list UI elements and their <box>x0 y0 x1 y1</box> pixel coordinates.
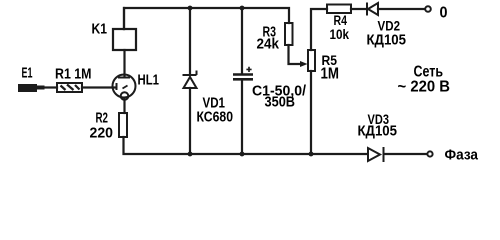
wire C1 top lead <box>241 8 243 73</box>
resistor R2 <box>119 113 127 137</box>
svg-text:E1: E1 <box>22 66 33 82</box>
svg-text:Фаза: Фаза <box>445 148 479 164</box>
variable resistor R5 <box>308 50 315 71</box>
wire top rail net A <box>124 8 289 29</box>
wire K1 top lead <box>123 8 125 29</box>
svg-text:VD2: VD2 <box>378 18 401 34</box>
wire HL1 cathode to R2 <box>123 100 125 114</box>
wire VD1 bottom lead <box>189 88 191 153</box>
svg-text:10k: 10k <box>330 27 350 42</box>
node junction dot C1 top <box>240 6 245 11</box>
terminal 0 <box>425 6 431 12</box>
wire VD3 to phase terminal <box>384 153 427 155</box>
capacitor C1 <box>233 67 253 80</box>
wire R5 bottom lead <box>310 71 312 153</box>
resistor R3 <box>285 23 293 45</box>
svg-text:0: 0 <box>440 5 448 22</box>
wire R1 to HL1 <box>82 86 116 88</box>
svg-text:R1 1M: R1 1M <box>55 67 92 83</box>
wire K1 to HL1 anode <box>123 50 125 77</box>
resistor R1 <box>57 83 82 92</box>
relay coil K1 <box>113 29 136 50</box>
svg-text:КД105: КД105 <box>367 33 407 49</box>
electrode E1 <box>18 84 37 92</box>
svg-text:220: 220 <box>90 126 114 142</box>
node junction dot C1 bottom <box>240 152 245 157</box>
wire net B top right <box>311 9 327 50</box>
wire R4 to VD2 <box>351 8 366 10</box>
wire C1 bottom lead <box>241 81 243 153</box>
svg-text:24k: 24k <box>257 37 280 53</box>
svg-text:R4: R4 <box>334 13 348 28</box>
svg-text:K1: K1 <box>92 22 108 38</box>
terminal phase <box>427 151 432 156</box>
neon lamp HL1 <box>113 75 136 100</box>
zener diode VD1 <box>183 71 197 89</box>
wire VD1 top lead <box>189 8 191 75</box>
svg-text:HL1: HL1 <box>138 73 160 89</box>
wire R5 wiper from R3 <box>289 45 302 64</box>
node junction dot VD1 top <box>188 6 193 11</box>
wire VD2 to 0 terminal <box>378 8 425 10</box>
svg-text:КС680: КС680 <box>197 110 234 126</box>
diode VD3 <box>368 147 384 162</box>
svg-text:350В: 350В <box>265 95 296 111</box>
svg-text:1M: 1M <box>321 66 340 83</box>
wiper arrowhead into R5 <box>300 61 308 67</box>
resistor R4 <box>327 5 351 14</box>
svg-text:~ 220 В: ~ 220 В <box>398 79 451 96</box>
svg-text:R2: R2 <box>96 111 109 127</box>
wire bottom rail <box>124 137 368 154</box>
wire E1 to R1 <box>37 86 57 88</box>
svg-text:КД105: КД105 <box>358 124 398 140</box>
node junction dot R5 bottom <box>309 152 314 157</box>
node junction dot VD1 bottom <box>188 152 193 157</box>
diode VD2 <box>367 3 378 16</box>
